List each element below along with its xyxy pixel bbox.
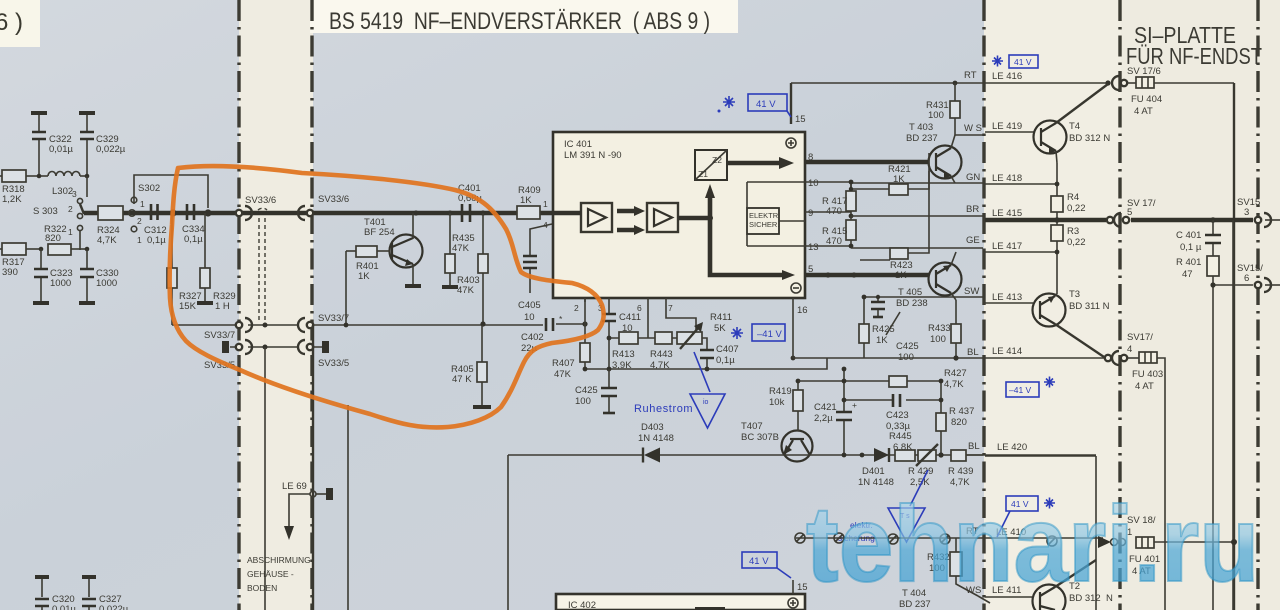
junction R415 bottom: [849, 244, 854, 249]
svg-text:ABSCHIRMUNG: ABSCHIRMUNG: [247, 555, 311, 565]
junction bus/S302: [132, 211, 137, 216]
thick wire stage2 to zener and pin5: [678, 184, 795, 280]
fuse FU404 4AT: [1131, 77, 1162, 117]
wire SV33/5 rail: [230, 346, 322, 348]
svg-text:15: 15: [795, 114, 806, 125]
wire LE415 main out: [985, 218, 1106, 223]
svg-text:+: +: [852, 400, 857, 410]
connector pair SV15-3: [1255, 213, 1271, 227]
wire LE417: [985, 251, 1057, 253]
svg-text:4,7K: 4,7K: [97, 235, 117, 246]
transistor T407 BC307B: [741, 421, 813, 462]
wire pin5 to T405 base: [805, 273, 929, 278]
node LE 69: [282, 481, 333, 500]
blue voltage tag 41V top: [748, 94, 791, 117]
svg-text:FU 404: FU 404: [1131, 94, 1162, 105]
resistor R403 47K: [457, 213, 488, 325]
svg-text:D403: D403: [641, 422, 664, 433]
wire screw rail RT2: [796, 537, 1103, 539]
title box top-left: [0, 0, 40, 47]
svg-text:R4: R4: [1067, 192, 1079, 203]
wire band right edge run: [312, 325, 314, 610]
svg-text:LE 417: LE 417: [992, 241, 1022, 252]
blue speck: [718, 110, 721, 113]
connector SV33/5 pair left: [236, 340, 252, 354]
fuse FU403 4AT: [1132, 352, 1163, 392]
wire bias loop left leg: [507, 455, 509, 610]
svg-text:SV33/7: SV33/7: [318, 313, 349, 324]
svg-text:R3: R3: [1067, 226, 1079, 237]
junction pin5 b: [851, 272, 856, 277]
resistor R439 4,7K: [948, 450, 983, 488]
junction chain/LE415: [1054, 217, 1060, 223]
junction R429/R437: [938, 452, 943, 457]
separator dashed line left-band left edge: [237, 0, 240, 610]
svg-text:820: 820: [45, 233, 61, 244]
junction pin5 a: [825, 272, 830, 277]
transistor T3 BD311N: [1033, 289, 1110, 357]
svg-text:9: 9: [808, 208, 813, 219]
dashed arch over bus: [258, 208, 267, 210]
svg-text:10: 10: [808, 178, 819, 189]
wire shield run down band: [264, 347, 266, 610]
svg-text:BR: BR: [966, 204, 979, 215]
svg-text:15K: 15K: [179, 301, 197, 312]
wire T404 diagonal: [978, 596, 990, 603]
wire SW rail: [864, 296, 983, 298]
svg-text:41 V: 41 V: [749, 556, 769, 567]
svg-text:C425: C425: [896, 341, 919, 352]
resistor R415 470: [822, 216, 856, 248]
svg-text:1,2K: 1,2K: [2, 194, 22, 205]
resistor R427 4,7K: [889, 368, 967, 390]
svg-text:Z2: Z2: [712, 155, 722, 165]
screw terminal a: [795, 533, 805, 543]
capacitor C330 1000: [79, 249, 119, 303]
IC402 body: [556, 594, 805, 610]
pin 6 stub: [637, 298, 648, 338]
junction dashed pair on SV33/5: [263, 345, 268, 350]
junction chain/LE417: [1055, 250, 1060, 255]
wire y381 row: [798, 380, 941, 382]
resistor R324 4,7K on bus: [97, 206, 123, 246]
wire FU401 to rail: [1154, 541, 1234, 543]
svg-text:BD 311 N: BD 311 N: [1069, 301, 1110, 312]
svg-text:IC 402: IC 402: [568, 600, 596, 610]
terminal plug SV33/5 left: [222, 341, 229, 353]
svg-text:1: 1: [140, 199, 145, 209]
svg-text:D401: D401: [862, 466, 885, 477]
resistor R318 1,2K: [0, 170, 33, 205]
junction R403/SV33-7: [480, 321, 485, 326]
svg-text:LM 391 N -90: LM 391 N -90: [564, 150, 622, 161]
resistor R445 body: [895, 450, 915, 461]
junction dashed pair on SV33/7: [263, 323, 268, 328]
wire FU403 to rail: [1157, 358, 1165, 610]
screw terminal c: [888, 534, 898, 544]
junction bus/R435: [447, 210, 452, 215]
svg-text:LE 69: LE 69: [282, 481, 307, 492]
junction C421 bottom: [842, 453, 847, 458]
blue voltage tag -41V right: [1006, 382, 1039, 397]
svg-text:io: io: [703, 399, 709, 406]
connector SV33/6 pair left: [236, 206, 252, 220]
inductor L302: [33, 172, 87, 198]
svg-text:T4: T4: [1069, 121, 1080, 132]
resistor R329 1H: [197, 213, 236, 312]
wire D403 to T407: [683, 454, 781, 456]
svg-text:LE 420: LE 420: [997, 442, 1027, 453]
svg-text:C402: C402: [521, 332, 544, 343]
blue pointer to R429: [910, 470, 928, 506]
resistor R423 1K: [860, 153, 929, 281]
junction pin9/R417: [849, 214, 854, 219]
wire pin2 down: [584, 298, 586, 324]
svg-text:C421: C421: [814, 402, 837, 413]
wire bus into stage1: [553, 211, 581, 216]
svg-text:SW: SW: [964, 286, 979, 297]
junction R419/bias row: [796, 379, 801, 384]
svg-text:0,1µ: 0,1µ: [147, 235, 166, 246]
signal arrows between stages: [617, 206, 645, 235]
wire R401 to SV33/7: [345, 251, 347, 325]
svg-text:47 K: 47 K: [452, 374, 472, 385]
wire LE414: [985, 357, 1104, 359]
resistor R409 1K: [517, 185, 541, 219]
svg-text:10: 10: [524, 312, 535, 323]
svg-text:R445: R445: [889, 431, 912, 442]
svg-text:1000: 1000: [96, 278, 117, 289]
wire LE418: [985, 183, 1057, 185]
wire RT to fuse: [1128, 82, 1136, 84]
svg-text:SV33/6: SV33/6: [318, 194, 349, 205]
wire GE rail: [851, 247, 983, 249]
label elektr sicherung: [838, 520, 875, 543]
svg-text:0,22: 0,22: [1067, 237, 1086, 248]
resistor R435 47K: [442, 213, 475, 287]
resistor R401 1K: [346, 246, 390, 282]
junction C322/wire: [37, 174, 42, 179]
svg-text:1K: 1K: [893, 174, 905, 185]
svg-text:3: 3: [1244, 207, 1249, 218]
svg-text:R407: R407: [552, 358, 575, 369]
svg-text:SICHER.: SICHER.: [749, 220, 779, 229]
svg-text:L302: L302: [52, 186, 73, 197]
capacitor C320 0,01u: [35, 577, 76, 610]
pin 7 stub: [666, 298, 696, 330]
svg-text:LE 414: LE 414: [992, 346, 1022, 357]
svg-text:R411: R411: [710, 312, 732, 323]
node SV18/1: [1127, 515, 1156, 538]
capacitor C425 100: [575, 369, 617, 413]
svg-text:R 401: R 401: [1176, 257, 1201, 268]
capacitor C402 22u on SV33/7: [521, 314, 585, 354]
blue voltage tag 41V bottom right: [997, 496, 1038, 537]
wire pin9 row: [805, 211, 851, 213]
svg-text:390: 390: [2, 267, 18, 278]
potentiometer R429 2,5K: [908, 444, 938, 488]
svg-text:6 ): 6 ): [0, 9, 23, 36]
blue star right mid: [1044, 377, 1055, 388]
svg-text:SV33/6: SV33/6: [245, 195, 276, 206]
wire pin15 IC402 stub: [792, 580, 794, 594]
resistor R437 820: [936, 379, 974, 455]
wire SV15/6 stub: [1265, 284, 1280, 286]
screw terminal d: [940, 534, 950, 544]
svg-text:4,7K: 4,7K: [944, 379, 964, 390]
junction BL/R433: [953, 355, 958, 360]
svg-text:SV15/: SV15/: [1237, 263, 1263, 274]
junction R401/SV15-6: [1210, 282, 1215, 287]
junction y381 left: [842, 379, 847, 384]
wire SV15/6 row: [1213, 284, 1253, 286]
svg-text:3: 3: [72, 189, 77, 199]
transistor T4 BD312N: [1034, 84, 1111, 163]
emitter chain T4-R4-R3-T3: [1056, 163, 1058, 294]
wire SV33/7 rail: [172, 324, 543, 326]
svg-text:BL: BL: [967, 347, 979, 358]
svg-text:T3: T3: [1069, 289, 1080, 300]
capacitor C411 10: [602, 312, 641, 369]
svg-text:16: 16: [797, 305, 808, 316]
terminal plug SV33/5 right: [322, 341, 329, 353]
capacitor C334 0,1u on bus: [182, 204, 205, 245]
svg-text:5: 5: [1127, 207, 1132, 218]
wire WS rail: [955, 134, 983, 136]
capacitor C401 0,1u right: [1176, 220, 1221, 256]
resistor R327 15K: [167, 213, 202, 325]
resistor R432 100: [927, 538, 978, 596]
svg-text:GE: GE: [966, 235, 980, 246]
svg-text:0,1 µ: 0,1 µ: [1180, 242, 1202, 253]
svg-text:–41 V: –41 V: [1009, 385, 1032, 395]
block ELEKTR SICHER: [747, 208, 779, 234]
svg-text:4 AT: 4 AT: [1135, 381, 1154, 392]
wire T407 emitter/collector to rail: [781, 454, 1096, 456]
component inside IC402: [695, 607, 725, 610]
svg-text:0,01µ: 0,01µ: [52, 604, 76, 610]
junction R401/SV33-7: [344, 323, 349, 328]
junction bus/R329: [204, 209, 211, 216]
resistor R433 100: [928, 300, 961, 358]
wire GN rail: [850, 182, 983, 184]
svg-text:1000: 1000: [50, 278, 71, 289]
svg-text:2: 2: [574, 303, 579, 313]
svg-text:47K: 47K: [457, 285, 475, 296]
wire trim row: [609, 338, 707, 349]
resistor R401 47 right: [1176, 256, 1219, 610]
svg-text:C 401: C 401: [1176, 230, 1201, 241]
title box top-center: [310, 0, 738, 33]
wire LE419 to T4 base: [985, 131, 1035, 133]
indicator triangle T s: [888, 508, 925, 542]
capacitor C421 2,2u electrolytic: [814, 369, 857, 455]
svg-text:C411: C411: [619, 312, 641, 323]
capacitor C425b 100: [871, 295, 919, 363]
svg-text:1N 4148: 1N 4148: [638, 433, 674, 444]
wires ELEKTR block bracket: [747, 182, 805, 246]
svg-text:0,022µ: 0,022µ: [99, 604, 129, 610]
wire minus rail y369: [585, 358, 827, 369]
svg-text:W S: W S: [964, 123, 982, 134]
junction bus/R327: [169, 209, 176, 216]
op-amp stage 1 inside IC401: [581, 203, 612, 232]
junction bus/T401 collector: [413, 210, 418, 215]
svg-text:100: 100: [928, 110, 944, 121]
junction R322/C323: [39, 247, 44, 252]
wire right rail vertical: [1233, 83, 1235, 610]
svg-text:T 403: T 403: [909, 122, 933, 133]
separator dashed line left-band right edge: [310, 0, 313, 610]
resistor R421 1K: [849, 164, 929, 195]
svg-text:6: 6: [1244, 273, 1249, 284]
main signal bus wire (left): [84, 211, 553, 216]
screw terminal b: [834, 533, 844, 543]
svg-text:S 303: S 303: [33, 206, 58, 217]
blue voltage tag -41V mid: [752, 324, 785, 341]
connector pair RT/SV17-6: [1112, 76, 1127, 90]
capacitor C407 0,1u: [700, 344, 739, 369]
wire pin13 to R415: [805, 245, 851, 247]
capacitor C322 0,01u: [31, 113, 73, 176]
svg-text:BD 312 N: BD 312 N: [1069, 133, 1110, 144]
wire SV15/3 stub: [1265, 219, 1280, 221]
svg-text:R413: R413: [612, 349, 635, 360]
op-amp stage 2 inside IC401: [647, 203, 678, 232]
svg-text:BF 254: BF 254: [364, 227, 395, 238]
separator dashed line center-right: [982, 0, 985, 610]
svg-text:1: 1: [543, 199, 548, 209]
junction RT/R431: [953, 81, 958, 86]
svg-text:Ruhestrom: Ruhestrom: [634, 403, 693, 415]
wire LE414 to fuse FU403: [1128, 357, 1139, 359]
svg-text:10k: 10k: [769, 397, 785, 408]
junction minus rail R407: [583, 367, 588, 372]
svg-text:47K: 47K: [554, 369, 572, 380]
node SV15/6: [1237, 263, 1263, 284]
resistor R431 100: [926, 83, 960, 135]
wire SV17/5 bus right: [1131, 218, 1253, 223]
diode D401 1N4148: [858, 448, 894, 488]
junction y400 left: [842, 398, 847, 403]
svg-text:IC 401: IC 401: [564, 139, 592, 150]
connector SV33/6 pair right: [298, 206, 313, 220]
label ABSCHIRMUNG GEHAEUSE BODEN: [247, 555, 311, 593]
light band left column: [239, 0, 313, 610]
capacitor C329 0,022u: [79, 113, 126, 176]
wire pin10 to R417: [805, 182, 851, 196]
svg-text:–41 V: –41 V: [757, 329, 782, 340]
resistor R419 10K: [769, 381, 803, 431]
junction minus rail C411: [607, 367, 612, 372]
resistor R443 4,7K: [650, 332, 673, 371]
blue star mid: [731, 327, 743, 339]
svg-text:41 V: 41 V: [1014, 57, 1032, 67]
svg-text:100: 100: [930, 334, 946, 345]
separator dashed line right margin: [1256, 0, 1259, 610]
orange hand-drawn highlight loop: [170, 166, 604, 427]
svg-text:100: 100: [575, 396, 591, 407]
pin 16 stub: [791, 283, 808, 324]
svg-text:GEHÄUSE -: GEHÄUSE -: [247, 569, 294, 579]
wire LE411: [985, 596, 1032, 598]
svg-text:2: 2: [68, 204, 73, 214]
junction C402/R407: [582, 321, 587, 326]
diode D403 1N4148: [620, 422, 683, 463]
svg-text:7: 7: [668, 303, 673, 313]
svg-text:SV33/5: SV33/5: [318, 358, 349, 369]
resistor R322 820: [44, 224, 87, 255]
switch S302 bypass loop: [129, 175, 208, 216]
svg-text:RT: RT: [964, 70, 977, 81]
wire pin4 to C405: [530, 224, 552, 255]
svg-text:0,1µ: 0,1µ: [184, 234, 203, 245]
svg-text:0,22: 0,22: [1067, 203, 1086, 214]
junction R322/C330: [85, 247, 90, 252]
capacitor C401 0,68u on bus: [458, 183, 482, 222]
svg-text:4: 4: [1127, 344, 1132, 355]
blue star right top: [992, 56, 1003, 67]
connector SV33/7 pair right: [298, 318, 313, 332]
wire LE420 leg down: [1095, 456, 1097, 610]
svg-text:BL: BL: [968, 441, 980, 452]
wire y400 row: [844, 399, 941, 401]
svg-text:SV 17/6: SV 17/6: [1127, 66, 1161, 77]
junction minus rail C407: [705, 367, 710, 372]
capacitor C423 0,33u: [886, 394, 910, 432]
transistor T403 BD237: [906, 122, 962, 183]
connector pair SV17-4: [1105, 351, 1127, 365]
potentiometer R411 5K: [677, 312, 732, 349]
wire rail x1233 upper: [1232, 220, 1234, 610]
blue pointer line to trim: [694, 352, 710, 392]
junction bus/R403: [480, 210, 485, 215]
svg-text:BD 237: BD 237: [906, 133, 938, 144]
svg-text:LE 416: LE 416: [992, 71, 1022, 82]
svg-text:BD 238: BD 238: [896, 298, 928, 309]
separator dashed line SI-Platte left: [1118, 0, 1121, 610]
wire C329 to switch S303: [86, 176, 88, 197]
svg-text:tehnari.ru: tehnari.ru: [806, 484, 1259, 604]
svg-text:R 439: R 439: [948, 466, 973, 477]
blue star bottom right: [1044, 498, 1055, 509]
svg-text:2,2µ: 2,2µ: [814, 413, 833, 424]
svg-text:C423: C423: [886, 410, 909, 421]
svg-text:FU 403: FU 403: [1132, 369, 1163, 380]
svg-text:1K: 1K: [358, 271, 370, 282]
transistor T405 BD238: [896, 252, 962, 309]
svg-text:BS 5419 NF–ENDVERSTÄRKER ( A: BS 5419 NF–ENDVERSTÄRKER ( ABS 9 ): [329, 8, 710, 35]
svg-text:R 437: R 437: [949, 406, 974, 417]
resistor R317 390: [0, 243, 41, 278]
junction C421 top: [842, 367, 847, 372]
junction chain/LE418: [1055, 182, 1060, 187]
svg-text:Z1: Z1: [698, 169, 708, 179]
svg-text:S302: S302: [138, 183, 160, 194]
node SV17/4: [1127, 332, 1153, 355]
wire thin inner leg: [347, 405, 349, 610]
screw terminal e: [1047, 536, 1057, 546]
IC401 body LM391: [553, 132, 805, 298]
connector pair SV17-5: [1107, 213, 1129, 227]
light band right section: [984, 0, 1280, 610]
wire pin8 to T403 base: [805, 160, 929, 165]
svg-text:SV17/: SV17/: [1127, 332, 1153, 343]
resistor R405 47K: [451, 325, 491, 407]
junction RT/T4 collector: [1105, 80, 1110, 85]
svg-text:R419: R419: [769, 386, 792, 397]
transistor T401 BF254: [364, 213, 423, 286]
